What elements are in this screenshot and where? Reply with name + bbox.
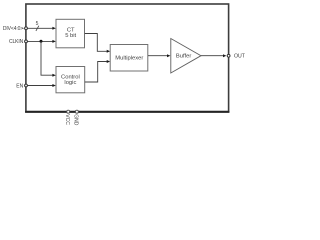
wire Multiplexer to Buffer bbox=[148, 54, 170, 57]
pin GND bbox=[73, 110, 79, 126]
svg-text:Multiplexer: Multiplexer bbox=[115, 56, 143, 62]
pin EN bbox=[16, 83, 27, 89]
svg-text:CLKIN: CLKIN bbox=[9, 39, 24, 45]
wire CLKIN branch to Control logic bbox=[41, 41, 56, 76]
svg-text:Buffer: Buffer bbox=[176, 54, 191, 60]
block Multiplexer bbox=[110, 45, 148, 72]
svg-text:GND: GND bbox=[73, 114, 79, 126]
chip boundary bottom edge bbox=[25, 111, 229, 113]
wire DIV bus to CT bbox=[26, 27, 56, 30]
svg-text:DIV<4:0>: DIV<4:0> bbox=[3, 26, 24, 32]
wire CLKIN to CT bbox=[26, 40, 56, 43]
wire EN to Control logic bbox=[26, 84, 56, 87]
chip boundary bbox=[26, 4, 229, 112]
svg-text:logic: logic bbox=[64, 80, 76, 86]
bus slash width 5 bbox=[36, 21, 39, 31]
wire CT to Multiplexer bbox=[85, 34, 110, 53]
pin CLKIN bbox=[9, 39, 27, 45]
pin OUT bbox=[227, 54, 246, 60]
pin VCC bbox=[64, 110, 70, 125]
wire Control logic to Multiplexer bbox=[85, 60, 110, 82]
pin DIV<4:0> bbox=[3, 26, 28, 32]
block Control logic bbox=[56, 67, 85, 93]
wire Buffer to OUT pin bbox=[201, 54, 226, 57]
svg-text:VCC: VCC bbox=[64, 114, 70, 125]
svg-text:5 bit: 5 bit bbox=[65, 33, 76, 39]
svg-text:EN: EN bbox=[16, 83, 23, 89]
block Buffer (triangle) bbox=[171, 39, 201, 74]
junction CLKIN node bbox=[40, 40, 43, 43]
block CT 5-bit counter bbox=[56, 19, 85, 48]
svg-text:OUT: OUT bbox=[234, 54, 246, 60]
svg-text:5: 5 bbox=[36, 21, 39, 27]
